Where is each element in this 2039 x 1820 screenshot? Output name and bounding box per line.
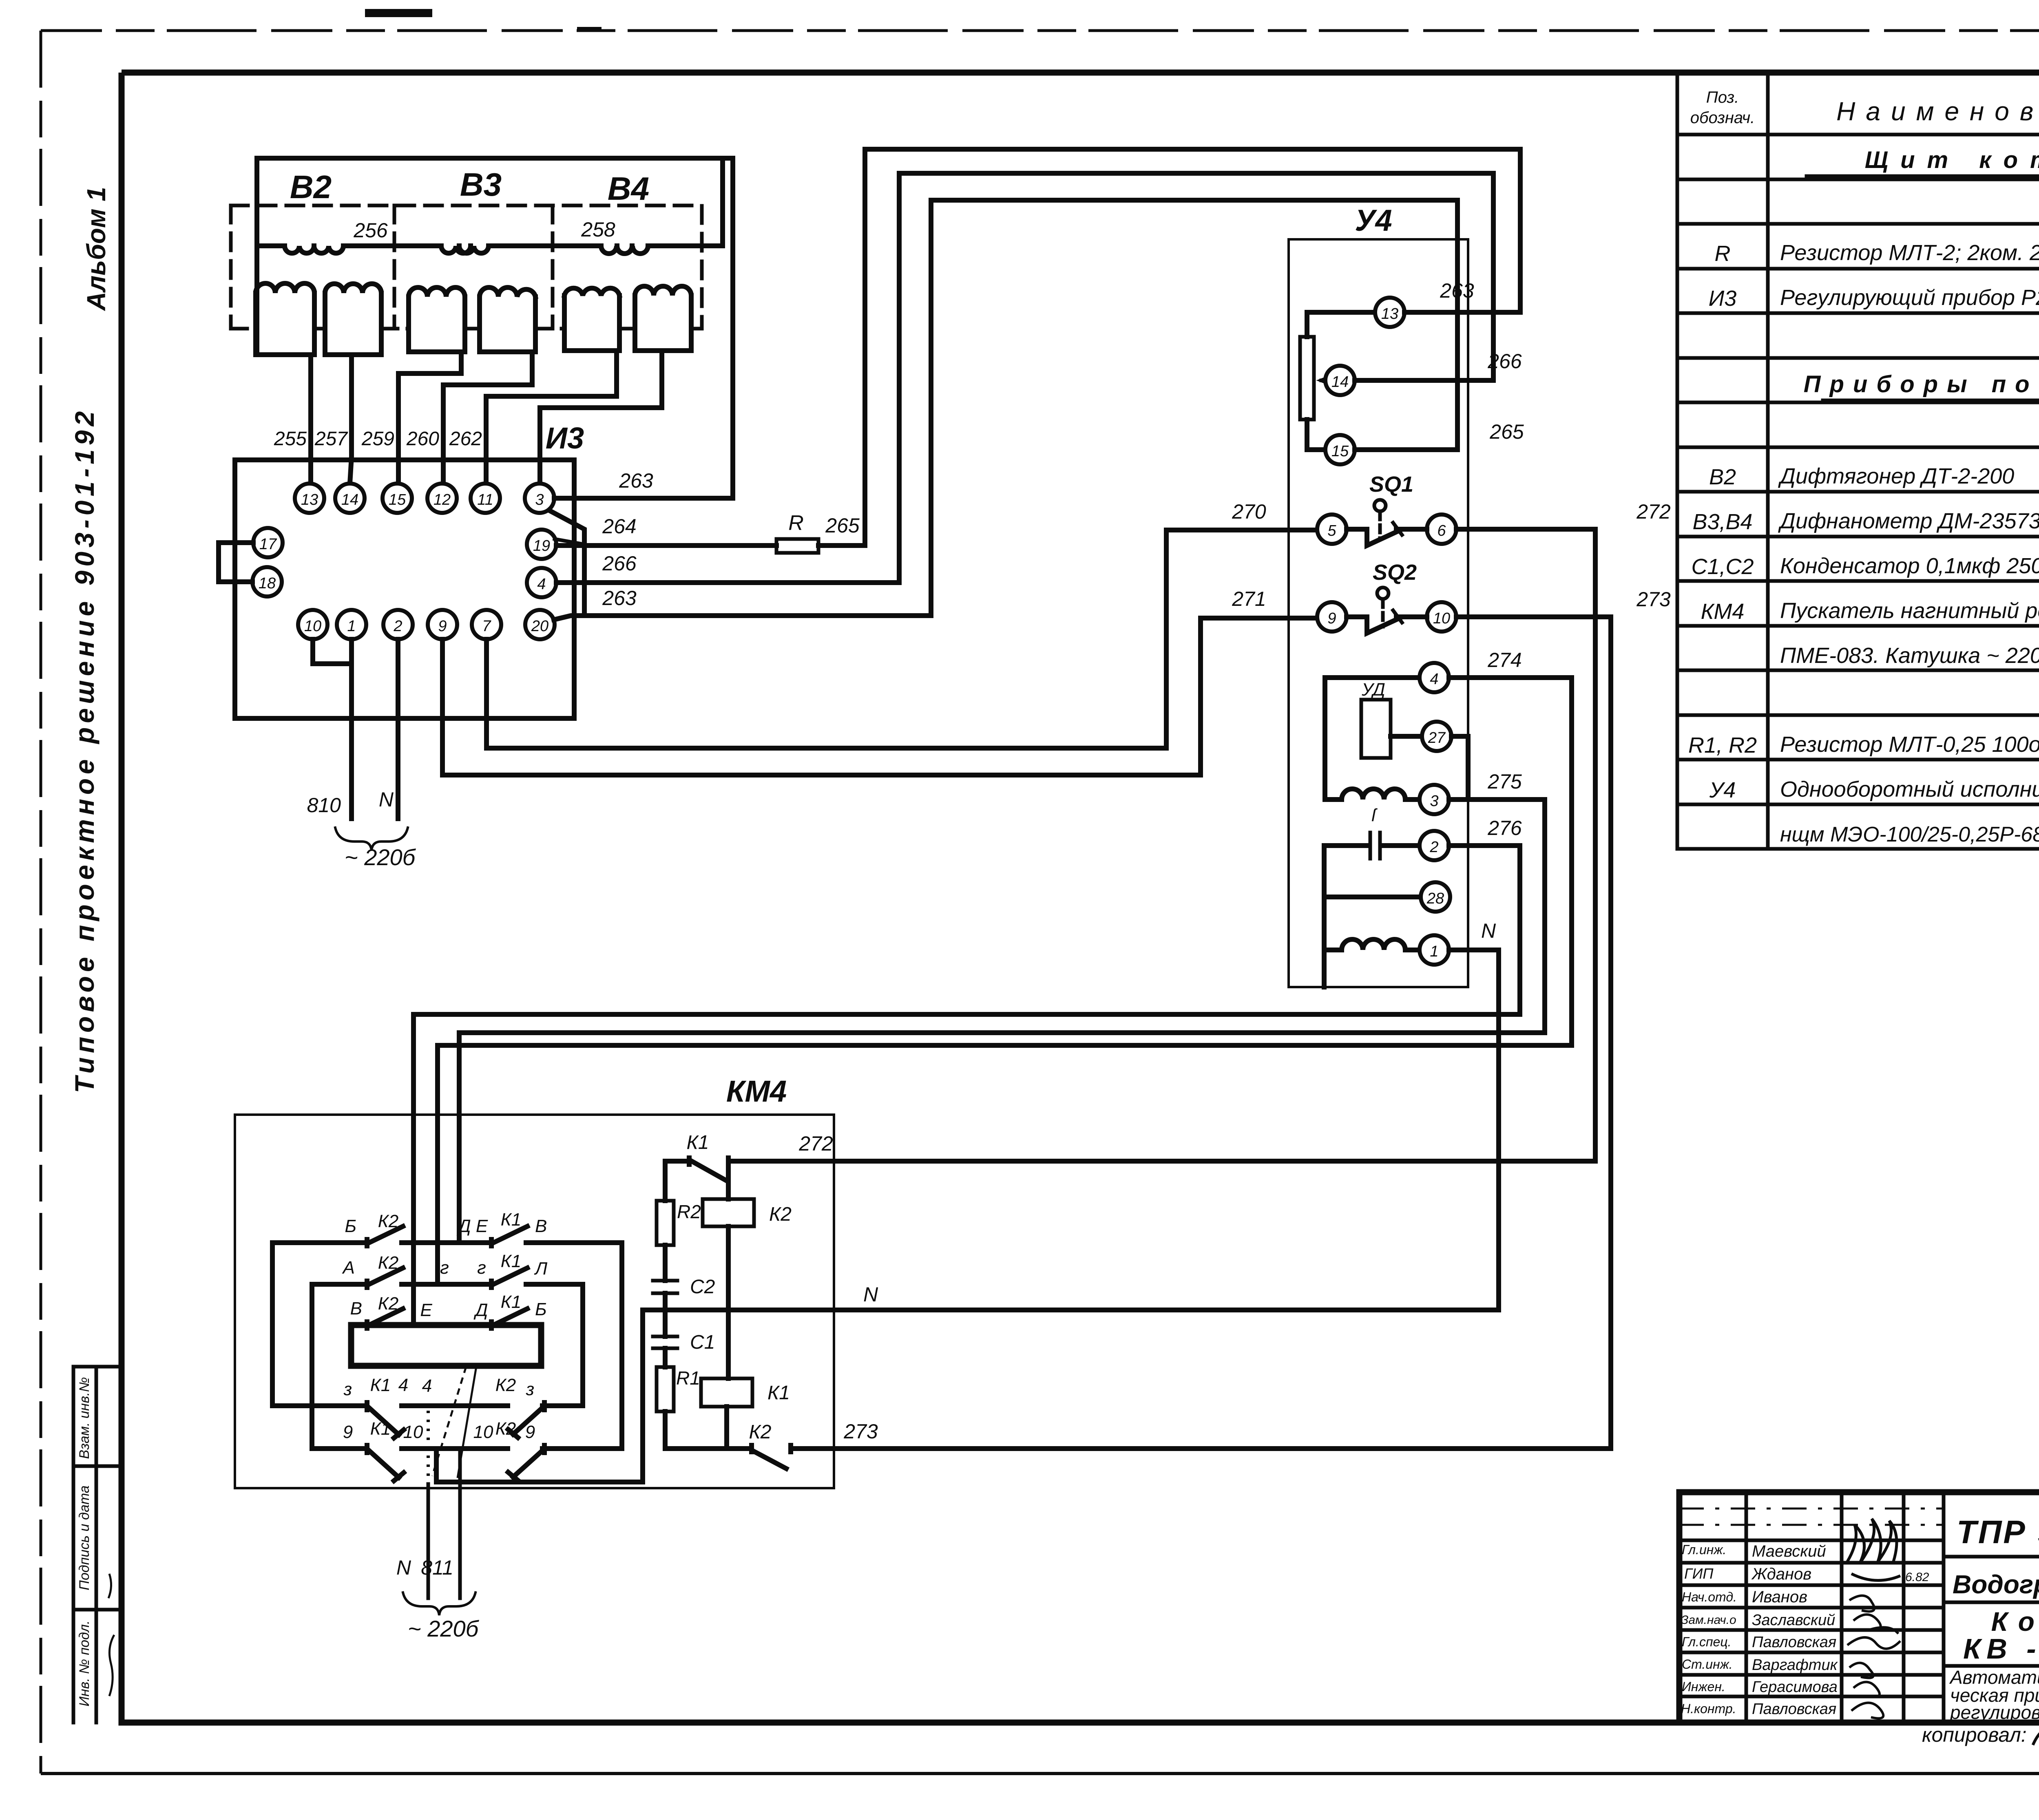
- wire K1 contact to 272: [728, 1159, 734, 1164]
- dashed divider B2/B3: [393, 205, 396, 329]
- svg-text:К1: К1: [501, 1251, 521, 1271]
- wire pot bottom to pin15: [1307, 420, 1325, 450]
- svg-text:R1: R1: [676, 1367, 700, 1389]
- svg-text:28: 28: [1426, 890, 1444, 907]
- svg-text:Водогрейные котлы типа КВ-Г: Водогрейные котлы типа КВ-ГМ: [1953, 1570, 2039, 1599]
- svg-text:6: 6: [1437, 522, 1446, 539]
- coil K2: [703, 1199, 754, 1226]
- svg-text:з: з: [343, 1379, 352, 1399]
- svg-text:Инв. № подл.: Инв. № подл.: [77, 1621, 92, 1707]
- signature scrawls: [1847, 1519, 1900, 1580]
- I3 box: [235, 460, 574, 718]
- svg-text:257: 257: [314, 428, 348, 450]
- I3 pin 17: [253, 528, 283, 557]
- I3 pin 18: [252, 567, 282, 596]
- svg-text:Ст.инж.: Ст.инж.: [1682, 1657, 1733, 1672]
- svg-text:Пускатель нагнитный реверсив: Пускатель нагнитный реверсивный: [1780, 599, 2039, 623]
- dashed bottom segments between coil boxes: [231, 327, 702, 331]
- wire 257 s2 to pin14: [350, 355, 352, 484]
- svg-text:1: 1: [347, 618, 356, 635]
- SQ2 terminal 9: [1317, 602, 1347, 632]
- svg-text:9: 9: [343, 1422, 353, 1442]
- svg-text:Герасимова: Герасимова: [1752, 1679, 1838, 1696]
- svg-text:Альбом 1: Альбом 1: [82, 187, 111, 311]
- secondary coil box s2: [325, 293, 381, 355]
- contact row1 left blade K2: [367, 1226, 403, 1246]
- supply wire 811 down: [458, 1451, 462, 1598]
- wiper arrow to pot: [1321, 375, 1336, 386]
- I3 pin 10: [298, 610, 327, 639]
- signature rows: [1679, 1563, 1944, 1696]
- wire loop A 265 to U4 pin13: [865, 149, 1520, 546]
- wire K2 coil to K1 coil: [726, 1226, 731, 1378]
- svg-text:Павловская: Павловская: [1752, 1634, 1836, 1651]
- title block verticals: [1746, 1492, 2039, 1723]
- svg-text:регулирования воздуха: регулирования воздуха: [1949, 1702, 2039, 1723]
- svg-text:5: 5: [1327, 522, 1336, 539]
- contact row3 right blade K1: [491, 1309, 527, 1328]
- svg-text:273: 273: [1636, 588, 1671, 611]
- svg-text:N: N: [396, 1556, 411, 1579]
- supply brace KM4: [403, 1592, 475, 1615]
- outer page border left: [40, 31, 42, 1774]
- svg-text:В3: В3: [460, 166, 502, 203]
- row2 right vertical: [580, 1284, 585, 1406]
- wire 263 pin3 to transformer box edge: [554, 496, 733, 501]
- svg-text:К2: К2: [749, 1421, 772, 1443]
- title block frame: [1679, 1492, 2039, 1723]
- svg-text:10: 10: [473, 1422, 493, 1442]
- svg-text:К1: К1: [501, 1210, 521, 1230]
- U4 box: [1289, 239, 1468, 987]
- I3 pin 2: [383, 610, 413, 639]
- svg-text:9: 9: [525, 1422, 535, 1442]
- svg-text:А: А: [342, 1258, 355, 1278]
- svg-text:В: В: [535, 1216, 547, 1236]
- svg-text:1: 1: [1430, 943, 1438, 960]
- wire 274 pin4 right: [1449, 675, 1572, 680]
- U4 pin 15: [1325, 435, 1355, 464]
- wire 266 pin14 right: [1355, 378, 1493, 383]
- svg-text:Щит котла: Щит котла: [1865, 147, 2039, 173]
- svg-text:Д Е: Д Е: [456, 1216, 488, 1236]
- U4 pin 2: [1420, 831, 1449, 860]
- I3 pin 13: [295, 484, 324, 513]
- svg-text:В: В: [350, 1299, 362, 1319]
- solid box around transformers: [257, 158, 733, 355]
- svg-text:272: 272: [798, 1132, 833, 1155]
- svg-text:12: 12: [433, 491, 451, 508]
- net 275: [459, 800, 1545, 1243]
- svg-text:Резистор МЛТ-0,25 100ом 0,25: Резистор МЛТ-0,25 100ом 0,25 Вт: [1780, 732, 2039, 757]
- svg-text:10: 10: [403, 1422, 423, 1442]
- supply brace I3: [335, 828, 408, 850]
- actuator linkage lines: [432, 1367, 466, 1476]
- svg-text:19: 19: [533, 537, 550, 554]
- resistor R1: [657, 1367, 674, 1411]
- row2 left vertical: [310, 1284, 314, 1449]
- svg-text:Инжен.: Инжен.: [1682, 1679, 1725, 1694]
- wire K1 right terminal to K2 coil: [726, 1161, 731, 1199]
- svg-text:К2: К2: [378, 1294, 398, 1314]
- svg-text:К2: К2: [378, 1253, 398, 1273]
- outer page border bottom: [41, 1772, 2039, 1775]
- capacitor lead: [1324, 843, 1420, 848]
- svg-text:Е: Е: [420, 1300, 432, 1320]
- svg-text:4: 4: [537, 576, 546, 593]
- svg-text:КМ4: КМ4: [726, 1074, 787, 1108]
- coil K1: [701, 1378, 752, 1407]
- net 274: [438, 678, 1572, 1284]
- wire 272 SQ1 right: [1456, 527, 1595, 532]
- outer page border top: [41, 29, 2039, 32]
- svg-text:263: 263: [602, 587, 637, 610]
- B4 primary coil: [601, 246, 648, 254]
- wire to pin4: [1325, 675, 1420, 680]
- svg-text:6.82: 6.82: [1905, 1570, 1929, 1584]
- stamp scribbles: [109, 1635, 114, 1696]
- primary winding line: [257, 243, 723, 248]
- svg-text:256: 256: [353, 219, 388, 242]
- svg-text:Б: Б: [535, 1299, 547, 1319]
- KM4 box: [235, 1115, 834, 1488]
- svg-text:811: 811: [421, 1556, 453, 1579]
- wire 270 pin7 to SQ1: [487, 530, 1317, 748]
- contact row4 left blade K1: [367, 1403, 404, 1438]
- I3 pin 19: [527, 530, 556, 559]
- wire N pin1 right: [1449, 948, 1499, 952]
- svg-text:2: 2: [393, 618, 402, 635]
- jumper wire pins 17-18: [219, 543, 253, 582]
- svg-text:C2: C2: [690, 1276, 715, 1298]
- contact row4 right blade K2: [508, 1403, 544, 1438]
- wire pin27 down to 275: [1451, 736, 1468, 800]
- I3 pin 9: [428, 610, 457, 639]
- U4 pin 14: [1325, 366, 1355, 395]
- motor winding coil 2: [1324, 939, 1420, 950]
- wire 265 R to loop A: [818, 543, 865, 548]
- svg-text:ГИП: ГИП: [1684, 1565, 1714, 1582]
- net 272: [730, 529, 1595, 1161]
- I3 pin 11: [471, 484, 500, 513]
- svg-text:Иванов: Иванов: [1752, 1588, 1807, 1606]
- svg-text:N: N: [379, 788, 394, 811]
- svg-text:К2: К2: [378, 1211, 398, 1231]
- svg-text:Б: Б: [345, 1216, 356, 1236]
- svg-text:3: 3: [1430, 793, 1438, 810]
- scan smudge top edge: [365, 9, 432, 17]
- svg-text:~ 220б: ~ 220б: [345, 844, 416, 870]
- supply wire N down: [427, 1411, 430, 1484]
- svg-text:нщм МЭО-100/25-0,25Р-68. Кату: нщм МЭО-100/25-0,25Р-68. Катушка~220в: [1780, 823, 2039, 846]
- row1 left vertical: [270, 1243, 275, 1406]
- svg-text:265: 265: [1489, 420, 1524, 443]
- secondary coil box s6: [635, 296, 691, 351]
- wire loop B 266 to U4 pin14: [899, 173, 1493, 583]
- svg-text:обознач.: обознач.: [1690, 109, 1755, 127]
- svg-text:Котел: Котел: [1991, 1606, 2039, 1637]
- svg-text:Типовое проектное решение 9: Типовое проектное решение 903-01-192: [69, 407, 100, 1093]
- svg-text:Маевский: Маевский: [1752, 1542, 1826, 1560]
- B2 primary coil: [285, 246, 343, 253]
- svg-text:14: 14: [341, 491, 358, 508]
- U4 pin 1: [1420, 935, 1449, 965]
- svg-text:4: 4: [1430, 671, 1438, 688]
- contact row5 left blade K1: [367, 1445, 404, 1481]
- svg-text:Наименование: Наименование: [1836, 97, 2039, 126]
- resistor R: [776, 539, 818, 553]
- capacitor C1: [653, 1336, 677, 1348]
- I3 pin 3: [525, 484, 554, 513]
- wire 273 SQ2 right: [1456, 614, 1611, 619]
- contact K1 top: [665, 1158, 728, 1201]
- svg-text:259: 259: [361, 428, 394, 450]
- svg-text:10: 10: [1433, 610, 1450, 627]
- table grid: [1677, 73, 2039, 849]
- contact row4 wires: [272, 1403, 583, 1408]
- contact row1 right blade K1: [491, 1226, 527, 1246]
- svg-text:3: 3: [535, 491, 544, 508]
- wire 262 s5 to pin11: [486, 351, 617, 483]
- secondary coil box s5: [564, 296, 619, 351]
- svg-text:4: 4: [422, 1376, 432, 1396]
- svg-text:Дифнанометр ДМ-23573: Дифнанометр ДМ-23573: [1778, 509, 2039, 533]
- U4 pin 28: [1421, 882, 1450, 912]
- wire 265 pin15 right: [1355, 447, 1457, 452]
- svg-text:Гл.инж.: Гл.инж.: [1682, 1542, 1726, 1557]
- svg-text:К1: К1: [501, 1292, 521, 1312]
- wire 263 right edge down to pin3 wire: [730, 158, 735, 498]
- svg-text:275: 275: [1487, 770, 1522, 793]
- motor group1 left bracket: [1322, 678, 1327, 800]
- wire loop C 263 to U4 pin15: [931, 200, 1457, 616]
- svg-text:270: 270: [1232, 500, 1266, 523]
- contact row5 wires: [312, 1446, 622, 1451]
- svg-text:265: 265: [825, 514, 860, 537]
- svg-text:Взам. инв.№: Взам. инв.№: [77, 1377, 92, 1459]
- svg-text:SQ1: SQ1: [1369, 472, 1413, 497]
- net N: [436, 950, 1499, 1482]
- svg-text:К1: К1: [370, 1419, 391, 1439]
- svg-text:ПМЕ-083. Катушка ~ 220в: ПМЕ-083. Катушка ~ 220в: [1780, 643, 2039, 668]
- capacitor plates: [1370, 833, 1380, 859]
- wire N from pin2: [396, 639, 400, 819]
- U4 pin 27: [1422, 722, 1451, 751]
- contact row3 wires: [351, 1323, 541, 1327]
- svg-text:~ 220б: ~ 220б: [408, 1616, 480, 1641]
- secondary coil box s3: [409, 297, 465, 352]
- svg-text:263: 263: [619, 469, 653, 492]
- wire 255 s1 to pin13: [308, 355, 313, 484]
- svg-text:C1: C1: [690, 1332, 715, 1353]
- secondary coil box s4: [480, 297, 535, 352]
- svg-text:264: 264: [602, 515, 636, 538]
- wire R1 down to 273 line: [663, 1411, 668, 1449]
- SQ1 terminal 6: [1427, 515, 1456, 544]
- svg-text:копировал:: копировал:: [1922, 1723, 2027, 1746]
- svg-text:255: 255: [274, 428, 307, 450]
- contact row2 wires: [312, 1282, 583, 1287]
- svg-text:г: г: [477, 1258, 486, 1278]
- wire 259 s3 to pin15: [398, 352, 461, 483]
- svg-text:2: 2: [1429, 839, 1438, 856]
- I3 pin 7: [472, 610, 501, 639]
- svg-text:262: 262: [449, 428, 482, 450]
- svg-text:Л: Л: [534, 1259, 548, 1279]
- wire 276 pin2 right: [1449, 843, 1520, 848]
- wire N line to C1: [663, 1310, 668, 1336]
- potentiometer body: [1300, 337, 1314, 420]
- svg-text:Зам.нач.о: Зам.нач.о: [1681, 1613, 1736, 1627]
- svg-text:Дифтягонер ДТ-2-200: Дифтягонер ДТ-2-200: [1778, 464, 2014, 488]
- svg-text:R1, R2: R1, R2: [1688, 733, 1757, 758]
- wire pin3 down to net263: [549, 510, 584, 616]
- svg-text:К1: К1: [767, 1382, 790, 1404]
- svg-text:г: г: [440, 1258, 449, 1278]
- wire C1 to R1: [663, 1348, 668, 1367]
- svg-text:27: 27: [1428, 729, 1446, 747]
- wire 271 pin9 to SQ2: [442, 618, 1317, 775]
- winding bar: [351, 1325, 541, 1366]
- I3 pin 15: [383, 484, 412, 513]
- net 273: [792, 617, 1611, 1449]
- svg-text:4: 4: [398, 1375, 408, 1395]
- wire 263 s6 to pin3: [540, 351, 662, 483]
- U4 pin 13: [1375, 298, 1404, 327]
- svg-text:Поз.: Поз.: [1706, 88, 1739, 106]
- svg-text:N: N: [1481, 919, 1496, 942]
- U4 pin 4: [1420, 663, 1449, 692]
- svg-text:N: N: [863, 1283, 878, 1306]
- row1 right vertical: [619, 1243, 624, 1449]
- svg-text:К2: К2: [769, 1204, 792, 1225]
- svg-text:R2: R2: [677, 1201, 701, 1222]
- wire R2 to C2: [663, 1245, 668, 1281]
- wire to pin28: [1324, 895, 1421, 899]
- svg-text:з: з: [526, 1379, 534, 1399]
- svg-text:10: 10: [304, 618, 321, 635]
- contact row3 left blade K2: [367, 1309, 403, 1328]
- svg-text:Приборы по месту: Приборы по месту: [1804, 371, 2039, 398]
- svg-text:263: 263: [1440, 279, 1474, 302]
- svg-text:КМ4: КМ4: [1701, 599, 1745, 624]
- svg-text:266: 266: [1487, 350, 1522, 373]
- svg-text:Гл.спец.: Гл.спец.: [1682, 1634, 1732, 1649]
- svg-text:У4: У4: [1355, 203, 1392, 237]
- amendment rows: [1679, 1539, 1944, 1542]
- contact K2 bottom: [665, 1445, 795, 1469]
- wire UD to pin27: [1391, 734, 1422, 739]
- svg-text:271: 271: [1232, 588, 1266, 610]
- svg-text:С1,С2: С1,С2: [1691, 554, 1754, 579]
- dashed divider B3/B4: [551, 205, 555, 329]
- svg-text:В4: В4: [608, 170, 649, 207]
- svg-text:20: 20: [531, 618, 548, 635]
- svg-text:И3: И3: [546, 421, 584, 455]
- B3 primary coil: [441, 246, 489, 253]
- SQ2 blade: [1347, 617, 1427, 633]
- svg-text:В2: В2: [1709, 465, 1736, 489]
- svg-text:13: 13: [301, 491, 318, 508]
- title block horizontals: [1944, 1557, 2039, 1666]
- svg-text:УД: УД: [1361, 680, 1385, 700]
- svg-text:Павловская: Павловская: [1752, 1701, 1836, 1718]
- svg-text:R: R: [788, 511, 804, 535]
- U4 pin 3: [1420, 785, 1449, 814]
- secondary coil box s1: [256, 293, 314, 355]
- svg-text:R: R: [1715, 241, 1731, 266]
- svg-text:ТПР 903-01-192: ТПР 903-01-192: [1957, 1514, 2039, 1550]
- svg-text:Н.контр.: Н.контр.: [1681, 1701, 1736, 1716]
- svg-text:В2: В2: [290, 169, 332, 205]
- svg-text:Резистор МЛТ-2; 2ком. 2Вт: Резистор МЛТ-2; 2ком. 2Вт: [1780, 241, 2039, 265]
- SQ1 blade: [1347, 529, 1427, 546]
- wire 260 s4 to pin12: [443, 352, 532, 483]
- svg-text:Однооборотный исполнительный: Однооборотный исполнительный неха-: [1780, 777, 2039, 802]
- svg-text:Д: Д: [473, 1300, 488, 1320]
- wire K1 coil down: [724, 1407, 729, 1449]
- svg-text:Нач.отд.: Нач.отд.: [1682, 1590, 1737, 1604]
- svg-text:Заславский: Заславский: [1752, 1612, 1835, 1629]
- wire C2 to N line: [663, 1293, 668, 1310]
- svg-text:В3,В4: В3,В4: [1692, 510, 1752, 534]
- svg-text:266: 266: [602, 552, 637, 575]
- svg-text:Варгафтик: Варгафтик: [1752, 1657, 1838, 1674]
- svg-text:К2: К2: [495, 1419, 516, 1439]
- motor winding coil 1: [1325, 789, 1420, 800]
- svg-text:15: 15: [389, 491, 406, 508]
- wire 263 pin20 to loop C: [554, 616, 931, 620]
- svg-text:272: 272: [1636, 500, 1671, 523]
- wire pot top to pin13: [1307, 312, 1375, 337]
- wire 275 pin3 right: [1449, 797, 1545, 802]
- capacitor C2: [653, 1281, 677, 1293]
- I3 pin 4: [527, 568, 556, 597]
- wire 264 pin19 to R: [556, 543, 776, 548]
- svg-text:276: 276: [1487, 817, 1522, 839]
- svg-text:17: 17: [259, 536, 277, 553]
- I3 pin 14: [335, 484, 365, 513]
- wire 263 pin13 right: [1404, 310, 1520, 315]
- svg-text:У4: У4: [1709, 778, 1736, 802]
- SQ2 terminal 10: [1427, 602, 1456, 632]
- svg-text:11: 11: [477, 491, 493, 508]
- svg-text:К1: К1: [370, 1375, 391, 1395]
- svg-text:К2: К2: [495, 1375, 516, 1395]
- left stamp boxes: [73, 1367, 122, 1723]
- svg-text:18: 18: [259, 575, 276, 592]
- resistor R2: [657, 1201, 674, 1245]
- wire 810 from pin1: [349, 639, 354, 819]
- svg-text:И3: И3: [1709, 286, 1737, 311]
- svg-text:Жданов: Жданов: [1751, 1565, 1811, 1583]
- svg-text:7: 7: [482, 618, 491, 635]
- contact row1 wires: [272, 1240, 622, 1245]
- contact row5 right blade K2: [508, 1445, 544, 1480]
- I3 pin 12: [427, 484, 457, 513]
- svg-text:273: 273: [843, 1420, 878, 1443]
- SQ1 terminal 5: [1317, 515, 1347, 544]
- dashed enclosure box: [231, 205, 702, 329]
- svg-text:260: 260: [406, 428, 439, 450]
- svg-text:9: 9: [1327, 610, 1336, 627]
- net 276: [414, 846, 1520, 1325]
- svg-text:КВ - ГМ- 20: КВ - ГМ- 20: [1963, 1633, 2039, 1665]
- contact row2 right blade K1: [491, 1268, 527, 1288]
- contact row2 left blade K2: [367, 1268, 403, 1288]
- svg-text:14: 14: [1331, 373, 1349, 391]
- svg-text:К1: К1: [687, 1132, 709, 1153]
